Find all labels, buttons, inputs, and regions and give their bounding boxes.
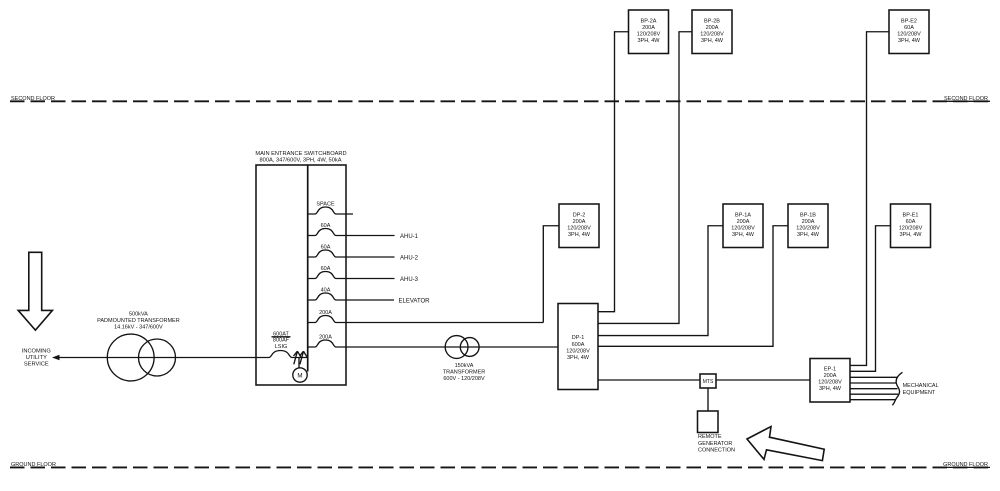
remote generator connection label bbox=[698, 434, 735, 454]
svg-text:GROUND FLOOR: GROUND FLOOR bbox=[943, 462, 988, 468]
wire EP-1 to BP-E1 bbox=[850, 226, 891, 372]
svg-text:120/208V: 120/208V bbox=[731, 226, 755, 232]
panel BP-2A bbox=[629, 10, 669, 54]
svg-text:3PH, 4W: 3PH, 4W bbox=[732, 232, 755, 238]
svg-text:REMOTE: REMOTE bbox=[698, 434, 722, 440]
svg-text:SECOND FLOOR: SECOND FLOOR bbox=[11, 96, 55, 102]
svg-text:120/208V: 120/208V bbox=[700, 32, 724, 38]
wire DP-1 to BP-1A bbox=[598, 226, 723, 336]
svg-text:120/208V: 120/208V bbox=[818, 380, 842, 386]
svg-text:CONNECTION: CONNECTION bbox=[698, 448, 735, 454]
generator direction arrow bbox=[747, 427, 824, 461]
wire to meter bbox=[298, 358, 300, 369]
svg-text:60A: 60A bbox=[321, 223, 331, 229]
breaker 60A AHU-3 bbox=[308, 266, 395, 279]
mechanical equipment feeders bbox=[850, 372, 903, 405]
mechanical equipment label bbox=[903, 383, 939, 396]
svg-text:PADMOUNTED TRANSFORMER: PADMOUNTED TRANSFORMER bbox=[97, 318, 180, 324]
wire MTS to EP-1 bbox=[716, 379, 810, 381]
wire DP-1 to MTS bbox=[598, 379, 700, 381]
svg-text:DP-2: DP-2 bbox=[573, 212, 586, 218]
wire DP-1 to BP-2B bbox=[598, 32, 692, 324]
svg-text:500kVA: 500kVA bbox=[129, 312, 148, 318]
svg-text:60A: 60A bbox=[906, 219, 916, 225]
svg-text:BP-2B: BP-2B bbox=[704, 18, 720, 24]
breaker SPACE bbox=[308, 201, 353, 214]
svg-text:GROUND FLOOR: GROUND FLOOR bbox=[11, 462, 56, 468]
svg-text:200A: 200A bbox=[802, 219, 815, 225]
svg-text:BP-E2: BP-E2 bbox=[901, 18, 917, 24]
svg-text:120/208V: 120/208V bbox=[567, 226, 591, 232]
svg-text:600A: 600A bbox=[572, 342, 585, 348]
svg-text:200A: 200A bbox=[706, 25, 719, 31]
svg-text:60A: 60A bbox=[321, 266, 331, 272]
wire 200A breaker to DP-2 riser bbox=[543, 226, 559, 323]
main entrance switchboard title bbox=[255, 151, 346, 164]
svg-text:60A: 60A bbox=[321, 244, 331, 250]
transformer T2 150kVA bbox=[445, 336, 479, 359]
panel BP-E2 bbox=[889, 10, 929, 54]
ground floor line bbox=[10, 466, 990, 468]
svg-text:M: M bbox=[297, 372, 302, 379]
svg-text:INCOMING: INCOMING bbox=[22, 349, 51, 355]
transformer T1 label bbox=[97, 312, 180, 331]
breaker 200A to DP-2 bbox=[308, 310, 544, 323]
svg-text:200A: 200A bbox=[642, 25, 655, 31]
svg-text:TRANSFORMER: TRANSFORMER bbox=[443, 370, 486, 376]
svg-text:150kVA: 150kVA bbox=[455, 363, 474, 369]
svg-text:3PH, 4W: 3PH, 4W bbox=[899, 232, 922, 238]
svg-text:MECHANICAL: MECHANICAL bbox=[903, 383, 939, 389]
panel DP-2 bbox=[559, 204, 599, 248]
CT drawout arrows bbox=[294, 351, 307, 364]
svg-text:3PH, 4W: 3PH, 4W bbox=[701, 38, 724, 44]
wire MTS to generator connection bbox=[707, 388, 709, 411]
remote generator connection box bbox=[698, 411, 719, 433]
bus bbox=[307, 165, 309, 372]
svg-text:AHU-2: AHU-2 bbox=[400, 255, 419, 261]
svg-text:3PH, 4W: 3PH, 4W bbox=[819, 386, 842, 392]
wire EP-1 to BP-E2 bbox=[850, 32, 889, 366]
meter M bbox=[293, 368, 307, 382]
svg-text:DP-1: DP-1 bbox=[572, 335, 585, 341]
svg-text:ELEVATOR: ELEVATOR bbox=[399, 298, 431, 304]
svg-text:AHU-1: AHU-1 bbox=[400, 234, 419, 240]
panel BP-1A bbox=[723, 204, 763, 248]
svg-text:UTILITY: UTILITY bbox=[26, 355, 47, 361]
svg-text:BP-1A: BP-1A bbox=[735, 212, 751, 218]
wire DP-1 to BP-2A bbox=[598, 32, 629, 312]
svg-text:200A: 200A bbox=[573, 219, 586, 225]
svg-text:120/208V: 120/208V bbox=[899, 226, 923, 232]
svg-text:EP-1: EP-1 bbox=[824, 366, 836, 372]
transfer switch MTS bbox=[700, 374, 716, 388]
svg-text:200A: 200A bbox=[824, 373, 837, 379]
svg-text:200A: 200A bbox=[319, 334, 332, 340]
transformer T1 500kVA padmounted bbox=[107, 334, 175, 381]
svg-text:120/208V: 120/208V bbox=[796, 226, 820, 232]
svg-text:3PH, 4W: 3PH, 4W bbox=[797, 232, 820, 238]
svg-text:800A, 347/600V, 3PH, 4W, 50kA: 800A, 347/600V, 3PH, 4W, 50kA bbox=[260, 158, 342, 164]
panel EP-1 bbox=[810, 359, 850, 403]
panel BP-2B bbox=[692, 10, 732, 54]
svg-text:14.16kV - 347/600V: 14.16kV - 347/600V bbox=[114, 325, 163, 331]
svg-text:200A: 200A bbox=[737, 219, 750, 225]
main breaker 600AT/800AF bbox=[256, 351, 308, 358]
breaker 60A AHU-1 bbox=[308, 223, 395, 236]
panel BP-1B bbox=[788, 204, 828, 248]
svg-text:EQUIPMENT: EQUIPMENT bbox=[903, 390, 936, 396]
svg-text:LSIG: LSIG bbox=[275, 344, 288, 350]
svg-text:3PH, 4W: 3PH, 4W bbox=[567, 355, 590, 361]
panel DP-1 bbox=[558, 304, 598, 390]
svg-text:BP-1B: BP-1B bbox=[800, 212, 816, 218]
svg-text:SECOND FLOOR: SECOND FLOOR bbox=[944, 96, 988, 102]
svg-text:MAIN ENTRANCE SWITCHBOARD: MAIN ENTRANCE SWITCHBOARD bbox=[255, 151, 346, 157]
svg-text:3PH, 4W: 3PH, 4W bbox=[568, 232, 591, 238]
panel BP-E1 bbox=[891, 204, 931, 248]
svg-text:60A: 60A bbox=[904, 25, 914, 31]
incoming utility service arrow bbox=[18, 252, 52, 330]
svg-text:3PH, 4W: 3PH, 4W bbox=[898, 38, 921, 44]
svg-text:AHU-3: AHU-3 bbox=[400, 277, 419, 283]
incoming utility service label bbox=[22, 349, 51, 368]
wire incoming service bbox=[52, 355, 256, 361]
second floor line bbox=[10, 100, 990, 102]
svg-text:BP-2A: BP-2A bbox=[641, 18, 657, 24]
svg-text:120/208V: 120/208V bbox=[566, 348, 590, 354]
main entrance switchboard enclosure bbox=[256, 165, 346, 385]
svg-text:800AF: 800AF bbox=[273, 338, 290, 344]
svg-text:40A: 40A bbox=[321, 287, 331, 293]
svg-text:MTS: MTS bbox=[703, 379, 714, 385]
svg-text:600V - 120/208V: 600V - 120/208V bbox=[443, 376, 485, 382]
main breaker rating label 600AT 800AF LSIG bbox=[272, 332, 291, 351]
svg-text:SERVICE: SERVICE bbox=[24, 362, 49, 368]
svg-text:120/208V: 120/208V bbox=[637, 32, 661, 38]
breaker 200A to transformer T2 bbox=[308, 334, 558, 347]
svg-text:200A: 200A bbox=[319, 310, 332, 316]
svg-text:120/208V: 120/208V bbox=[897, 32, 921, 38]
svg-text:SPACE: SPACE bbox=[316, 201, 335, 207]
wire DP-1 to BP-1B bbox=[598, 226, 788, 347]
transformer T2 label bbox=[443, 363, 486, 382]
svg-text:BP-E1: BP-E1 bbox=[903, 212, 919, 218]
svg-text:GENERATOR: GENERATOR bbox=[698, 441, 732, 447]
breaker 40A ELEVATOR bbox=[308, 287, 394, 300]
svg-text:3PH, 4W: 3PH, 4W bbox=[637, 38, 660, 44]
breaker 60A AHU-2 bbox=[308, 244, 395, 257]
